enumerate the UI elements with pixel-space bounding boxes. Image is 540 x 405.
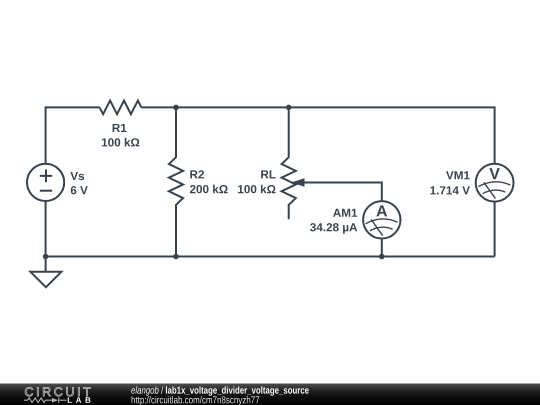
logo wire to LAB [60,399,67,401]
node: AM1 bottom junction [379,254,385,260]
resistor R1 [100,101,142,115]
potentiometer RL body with top lead and dangling bottom stub [282,107,296,219]
value 6 V of Vs [71,186,88,194]
value 34.28 uA of AM1 [310,223,357,234]
VM1 dial [478,182,510,199]
wire: RL top node to VM1 top lead [289,107,495,163]
logo diode bar [58,398,60,403]
Vs minus sign [40,190,52,192]
wire: R1 right to R2 top node [141,106,176,108]
value 100 kOhm of R1 [102,138,139,147]
ammeter letter A [376,205,387,216]
wire: Vs bottom lead [45,201,47,257]
label RL [261,170,275,178]
RL wiper arrow head [291,178,305,186]
value 1.714 V of VM1 [430,186,470,194]
node: R2 top junction [173,105,179,111]
wire: Vs top lead up and over to R1 left [46,107,100,163]
footer line 1: user and title [131,386,308,395]
wire: AM1 bottom lead [381,239,383,257]
resistor R2 with leads [169,107,183,256]
wire: R2 top node to RL top node [176,106,289,108]
label AM1 [333,209,357,217]
logo word CIRCUIT [25,387,90,396]
label R1 [113,124,127,132]
label R2 [190,170,204,178]
AM1 dial [366,219,398,236]
node: R2 bottom junction [173,254,179,260]
voltmeter letter V [489,168,499,179]
node: ground junction [43,254,49,260]
voltage source Vs circle [27,164,64,201]
Vs plus sign [40,169,52,182]
wire: RL wiper to AM1 top lead [298,183,382,202]
node: RL top junction [286,105,292,111]
ammeter AM1 circle [363,201,400,238]
footer line 2: url [132,396,260,405]
footer bar background [0,384,540,405]
wire: VM1 bottom lead [494,202,496,257]
voltmeter VM1 circle [476,164,514,202]
value 100 kOhm of RL [238,185,275,194]
logo resistor zigzag and wire [24,398,67,403]
logo word LAB [68,397,91,403]
wire: bottom rail [46,256,495,258]
ground symbol [30,257,61,288]
value 200 kOhm of R2 [190,185,228,194]
logo diode triangle [52,398,58,403]
label Vs [70,172,84,180]
label VM1 [446,171,470,179]
